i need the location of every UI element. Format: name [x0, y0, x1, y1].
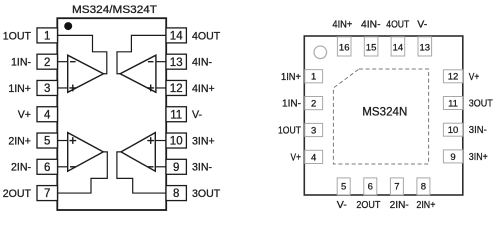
wire pin 13 to U1D inverting input: [156, 61, 166, 63]
pin label 4IN- (DIP pin 13): [192, 57, 212, 69]
pin 16 box (QFN): [337, 37, 351, 56]
wire pin 10 to U1C non-inverting input: [155, 140, 166, 142]
svg-text:7: 7: [44, 188, 50, 200]
pin 8 box (DIP): [166, 186, 186, 201]
pin label V+ (QFN left): [291, 152, 302, 163]
pin 15 box (QFN): [364, 37, 378, 56]
wire U1C output to pin 8: [117, 152, 166, 193]
pin 5 box (QFN): [337, 178, 350, 195]
svg-text:3: 3: [44, 83, 50, 95]
pin label 4OUT (QFN top): [386, 19, 409, 30]
pin label V- (QFN top): [417, 19, 427, 30]
pin label 3OUT (DIP pin 8): [192, 188, 221, 200]
pin label 1IN+ (DIP pin 3): [8, 83, 31, 95]
IC body U2 (QFN-16 MS324N package): [304, 36, 463, 195]
pin label 2IN- (QFN bottom): [390, 200, 409, 211]
svg-text:MS324/MS324T: MS324/MS324T: [72, 4, 157, 16]
svg-text:2IN-: 2IN-: [11, 162, 31, 174]
svg-text:12: 12: [448, 72, 459, 83]
pin label 1IN+ (QFN left): [281, 72, 301, 83]
svg-text:2OUT: 2OUT: [3, 188, 32, 200]
pin 10 box (QFN): [443, 123, 462, 136]
pin label 1IN- (DIP pin 2): [11, 57, 31, 69]
pin label 2OUT (QFN bottom): [356, 200, 380, 211]
wire pin 9 to U1C inverting input: [155, 166, 166, 168]
svg-text:2OUT: 2OUT: [356, 200, 380, 211]
pin label 3IN- (QFN right): [469, 125, 487, 136]
pin label V+ (DIP pin 4): [18, 109, 31, 121]
svg-text:4IN+: 4IN+: [332, 19, 352, 30]
wire pin 5 to U1B non-inverting input: [57, 140, 67, 142]
svg-text:15: 15: [366, 43, 377, 54]
svg-text:V+: V+: [18, 109, 31, 121]
svg-text:2IN+: 2IN+: [416, 200, 435, 211]
svg-text:1IN+: 1IN+: [8, 83, 31, 95]
svg-text:V+: V+: [291, 152, 302, 163]
svg-text:4: 4: [311, 152, 316, 163]
pin 2 box (QFN): [305, 97, 323, 110]
pin label V+ (QFN right): [469, 72, 480, 83]
pin label 3OUT (QFN right): [469, 99, 493, 110]
pin label 2IN+ (DIP pin 5): [8, 135, 31, 147]
svg-text:3: 3: [311, 125, 316, 136]
pin label 4IN- (QFN top): [361, 19, 381, 30]
pin 14 box (QFN): [391, 37, 405, 56]
pin label 2IN+ (QFN bottom): [416, 200, 435, 211]
pin 14 box (DIP): [166, 28, 186, 43]
pin label 2OUT (DIP pin 7): [3, 188, 32, 200]
svg-text:2IN-: 2IN-: [390, 200, 409, 211]
svg-text:7: 7: [394, 181, 399, 192]
svg-text:1IN+: 1IN+: [281, 72, 301, 83]
pin 8 box (QFN): [417, 178, 430, 195]
svg-text:3IN-: 3IN-: [469, 125, 487, 136]
svg-text:11: 11: [448, 98, 458, 109]
pin label V- (QFN bottom): [337, 200, 347, 211]
pin 10 box (DIP): [166, 133, 186, 148]
wire U1A output to pin 1: [57, 35, 107, 73]
pin label 3IN+ (QFN right): [469, 152, 488, 163]
svg-text:3OUT: 3OUT: [192, 188, 221, 200]
pin 1 box (QFN): [305, 70, 323, 83]
pin 13 box (QFN): [418, 37, 432, 56]
pin 2 box (DIP): [37, 54, 58, 69]
pin label 1OUT (QFN left): [278, 126, 301, 137]
die outline (dashed): [333, 69, 428, 164]
pin 11 box (QFN): [443, 97, 462, 110]
op-amp U1A: [68, 55, 104, 92]
svg-text:3IN+: 3IN+: [469, 152, 488, 163]
svg-text:3IN+: 3IN+: [192, 135, 215, 147]
svg-text:V-: V-: [337, 200, 347, 211]
wire U1B output to pin 7: [57, 152, 107, 193]
svg-text:8: 8: [421, 181, 426, 192]
pin 6 box (QFN): [364, 178, 377, 195]
svg-text:V-: V-: [417, 19, 427, 30]
wire U1D output to pin 14: [117, 35, 166, 73]
op-amp U1B: [68, 133, 104, 172]
pin 6 box (DIP): [37, 159, 58, 174]
pin label V- (DIP pin 11): [192, 109, 202, 121]
svg-text:9: 9: [450, 152, 455, 163]
wire pin 12 to U1D non-inverting input: [156, 87, 166, 89]
pin label 3IN+ (DIP pin 10): [192, 135, 215, 147]
svg-text:8: 8: [173, 188, 179, 200]
pin label 2IN- (DIP pin 6): [11, 162, 31, 174]
svg-text:2: 2: [311, 99, 316, 110]
svg-text:11: 11: [170, 109, 182, 121]
svg-text:10: 10: [170, 136, 183, 148]
svg-text:4IN-: 4IN-: [192, 57, 212, 69]
pin 12 box (QFN): [443, 70, 462, 83]
pin label 1IN- (QFN left): [282, 99, 301, 110]
svg-text:4IN-: 4IN-: [361, 19, 381, 30]
svg-text:2: 2: [44, 57, 50, 69]
svg-text:V+: V+: [469, 72, 480, 83]
svg-text:1IN-: 1IN-: [11, 57, 31, 69]
pin label 3IN- (DIP pin 9): [192, 162, 212, 174]
svg-text:4IN+: 4IN+: [192, 83, 215, 95]
svg-text:1: 1: [311, 72, 316, 83]
wire pin 6 to U1B inverting input: [57, 166, 67, 168]
pin 11 box (DIP): [166, 107, 186, 122]
svg-text:2IN+: 2IN+: [8, 135, 31, 147]
part name MS324N: [362, 106, 407, 119]
pin label 4IN+ (QFN top): [332, 19, 352, 30]
op-amp U1D: [120, 55, 156, 92]
pin 1 box (DIP): [37, 28, 58, 43]
svg-text:12: 12: [170, 83, 183, 95]
title MS324/MS324T: [72, 4, 157, 16]
pin 9 box (QFN): [443, 150, 462, 163]
svg-text:10: 10: [448, 125, 459, 136]
svg-text:6: 6: [368, 181, 373, 192]
pin 4 box (QFN): [305, 150, 323, 163]
pin 3 box (DIP): [37, 80, 58, 95]
svg-text:16: 16: [339, 43, 350, 54]
pin 3 box (QFN): [305, 123, 323, 136]
svg-text:3IN-: 3IN-: [192, 162, 212, 174]
pin label 1OUT (DIP pin 1): [3, 30, 32, 42]
wire pin 2 to U1A inverting input: [57, 61, 67, 63]
pin 4 box (DIP): [37, 107, 58, 122]
op-amp U1C: [121, 133, 155, 172]
pin 1 indicator dot: [64, 22, 72, 30]
svg-text:1OUT: 1OUT: [278, 126, 301, 137]
pin 9 box (DIP): [166, 159, 186, 174]
svg-text:3OUT: 3OUT: [469, 99, 493, 110]
pin label 4IN+ (DIP pin 12): [192, 83, 215, 95]
svg-text:5: 5: [341, 181, 346, 192]
pin 12 box (DIP): [166, 80, 186, 95]
pin 1 indicator circle: [314, 46, 327, 59]
svg-text:13: 13: [420, 43, 431, 54]
svg-text:1IN-: 1IN-: [282, 99, 301, 110]
svg-text:14: 14: [170, 31, 183, 43]
pin 7 box (DIP): [37, 186, 58, 201]
pin 7 box (QFN): [390, 178, 403, 195]
svg-text:9: 9: [173, 162, 179, 174]
svg-text:1: 1: [44, 31, 50, 43]
svg-text:4: 4: [44, 109, 51, 121]
svg-text:13: 13: [170, 57, 183, 69]
svg-text:6: 6: [44, 162, 50, 174]
svg-text:4OUT: 4OUT: [192, 30, 221, 42]
IC body U1 (DIP-14 package): [57, 18, 166, 210]
wire pin 3 to U1A non-inverting input: [57, 87, 67, 89]
svg-text:MS324N: MS324N: [362, 106, 407, 119]
pin 13 box (DIP): [166, 54, 186, 69]
svg-text:V-: V-: [192, 109, 202, 121]
pin 5 box (DIP): [37, 133, 58, 148]
svg-text:14: 14: [393, 43, 404, 54]
pin label 4OUT (DIP pin 14): [192, 30, 221, 42]
svg-text:5: 5: [44, 136, 50, 148]
svg-text:4OUT: 4OUT: [386, 19, 409, 30]
svg-text:1OUT: 1OUT: [3, 30, 32, 42]
